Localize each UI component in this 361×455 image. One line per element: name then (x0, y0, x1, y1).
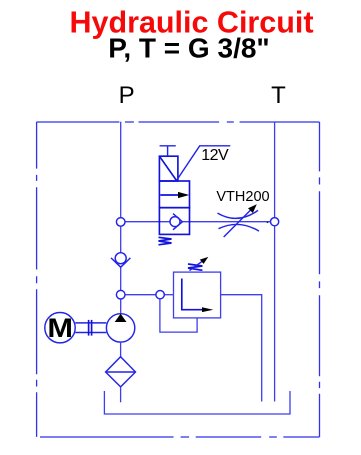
relief valve adjust arrow (190, 257, 209, 271)
solenoid valve V1 manual override (160, 146, 176, 156)
wire node to relief box (164, 294, 173, 296)
relief valve pilot line (160, 299, 197, 332)
pump output triangle (115, 314, 127, 322)
svg-text:VTH200: VTH200 (216, 189, 269, 205)
check valve above pump (111, 253, 130, 268)
enclosure frame bottom (40, 436, 320, 438)
relief valve outlet line (221, 295, 262, 402)
relief valve spring (188, 264, 202, 270)
node relief inlet pilot junction (156, 291, 164, 299)
node T-flow junction (271, 218, 279, 226)
enclosure frame left (36, 122, 38, 437)
solenoid valve V1 spring (159, 237, 172, 245)
solenoid valve V1 solenoid box (159, 156, 178, 181)
motor M circle (45, 313, 75, 343)
filter diamond (106, 357, 136, 387)
throttle valve VTH200 adjust arrow (224, 204, 257, 237)
throttle valve VTH200 arcs (218, 210, 260, 231)
wire junction to pump (120, 299, 122, 314)
wire flow line left (125, 221, 170, 223)
svg-text:T: T (271, 82, 286, 109)
flow line fleck (267, 221, 269, 223)
tank (104, 391, 290, 414)
wire P line to check valve (120, 226, 122, 252)
motor-pump shaft (75, 323, 106, 333)
coupling bars (89, 320, 92, 336)
wire P line upper (120, 122, 122, 218)
svg-text:12V: 12V (201, 147, 229, 164)
leader line 12V (177, 146, 231, 181)
wire T line upper (274, 122, 276, 218)
svg-text:M: M (47, 314, 73, 344)
relief valve internal arrow (182, 279, 214, 313)
wire junction to relief valve (125, 294, 156, 296)
wire filter to tank (120, 387, 122, 402)
enclosure frame top (37, 121, 320, 123)
wire pump to filter (120, 342, 122, 357)
node P-flow junction (116, 218, 125, 227)
enclosure frame right (319, 122, 321, 437)
pump circle (106, 314, 134, 342)
solenoid valve V1 body boxes (159, 181, 189, 234)
relief valve box (174, 272, 221, 318)
wire T line lower (274, 226, 276, 402)
svg-text:P, T = G 3/8": P, T = G 3/8" (108, 33, 269, 64)
node pump-relief junction (116, 290, 125, 299)
solenoid valve V1 check symbol (170, 214, 182, 230)
wire check valve to junction (120, 266, 122, 290)
solenoid valve V1 flow arrow (160, 192, 189, 198)
svg-text:P: P (119, 82, 135, 109)
wire flow line right (182, 221, 270, 223)
